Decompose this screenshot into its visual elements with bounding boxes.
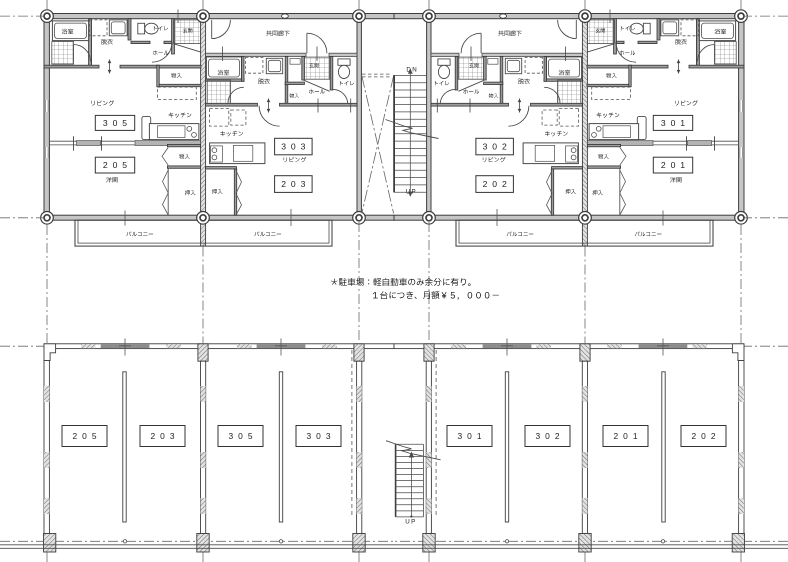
wire dressing east wall U2 bbox=[285, 56, 288, 106]
wire wall dressing/toilet U1 bbox=[128, 19, 131, 40]
bath door arc U1 bbox=[74, 45, 91, 62]
stair upper center line bbox=[409, 70, 411, 196]
toilet door arc U2 bbox=[333, 89, 348, 104]
wire room divider solid U1b bbox=[135, 141, 201, 146]
wire centerline x203 bbox=[202, 0, 204, 13]
label hooru bbox=[153, 51, 169, 56]
genkan step edge U2 bbox=[303, 80, 330, 92]
label yokushitsu bbox=[218, 70, 229, 75]
room number box 305 bbox=[95, 115, 134, 130]
label datsui bbox=[518, 78, 530, 83]
node parking centerline tick x125 bbox=[124, 339, 126, 356]
label ribingu bbox=[91, 100, 114, 105]
wire closet2 mid U1 bbox=[167, 166, 200, 168]
node door tick corridor b bbox=[316, 47, 318, 62]
kitchen sink U2 bbox=[233, 145, 252, 161]
parking stall box bbox=[140, 426, 185, 447]
stair shaft cross X bbox=[362, 76, 394, 214]
wire parking bottom line a bbox=[0, 544, 394, 546]
node divider tick b bbox=[101, 136, 103, 150]
bathtub U1 bbox=[52, 21, 88, 41]
node parking footing x359 bbox=[353, 534, 365, 553]
stair upper arrow top bbox=[408, 69, 413, 74]
bath tile floor U1 bbox=[52, 42, 74, 65]
node closet chevron U1 b bbox=[163, 170, 169, 215]
bath tile floor U2 bbox=[207, 80, 230, 103]
wire hall/genkan wall U1 bbox=[172, 19, 175, 54]
stair upper treads bbox=[394, 74, 427, 76]
node parking corner col bbox=[44, 344, 56, 361]
node door tick U2 hall b bbox=[350, 99, 352, 113]
node wall tick x125 bbox=[124, 211, 126, 226]
node datum circle x281 bbox=[279, 540, 282, 543]
parking stall box bbox=[62, 426, 107, 447]
wire wall hatch seg bbox=[44, 498, 49, 514]
label datsui bbox=[675, 39, 687, 44]
wire closet2 left U1 bbox=[167, 168, 169, 215]
label ribingu bbox=[675, 100, 698, 105]
node parking footing x47 bbox=[44, 534, 56, 553]
wire centerline bottom bbox=[0, 540, 394, 542]
genkan tile U2 bbox=[304, 57, 329, 79]
node oshiire chevron U2 bbox=[236, 171, 242, 216]
wire left outer wall bbox=[44, 14, 49, 221]
wire corridor south wall A bbox=[206, 53, 306, 56]
wire oshiire top U2 bbox=[206, 167, 237, 169]
wire closet top U1 bbox=[157, 65, 201, 68]
wire centerline x47 bbox=[46, 225, 48, 343]
wire centerline x359 bbox=[358, 0, 360, 13]
wire wall hatch seg bbox=[44, 386, 49, 402]
wire toilet south wall U1 b bbox=[164, 41, 174, 43]
wire stairwell west wall bbox=[357, 16, 361, 220]
svg-text:203: 203 bbox=[151, 431, 180, 441]
label youma bbox=[106, 177, 117, 182]
label parking note line2 bbox=[373, 291, 499, 299]
label toire bbox=[621, 26, 635, 30]
wire toilet south wall U1 bbox=[131, 41, 150, 43]
wire centerline x47 bbox=[46, 553, 48, 562]
wire parking wall hatch bbox=[322, 344, 337, 348]
wire service south wall U1 a bbox=[44, 65, 99, 68]
label oshiire bbox=[212, 189, 223, 194]
label monoire bbox=[489, 93, 499, 98]
label genkan bbox=[309, 63, 318, 68]
svg-text:202: 202 bbox=[483, 179, 512, 189]
parking stall box bbox=[218, 426, 263, 447]
svg-text:UP: UP bbox=[406, 189, 417, 196]
wire room divider solid U1a bbox=[77, 141, 101, 146]
wire storage top wall U2 bbox=[285, 82, 304, 84]
label toire bbox=[435, 81, 449, 85]
node column marker (47,16.1) bbox=[41, 10, 54, 23]
stove U2 bbox=[212, 148, 217, 153]
dashed appliance U1 bbox=[89, 20, 107, 36]
label yokushitsu bbox=[559, 70, 570, 75]
bath door arc U2 bbox=[228, 87, 244, 103]
stair upper west stringer bbox=[393, 75, 395, 192]
node top wall tick x178 bbox=[177, 10, 179, 24]
entry door U2 bbox=[306, 33, 308, 53]
wire parking wall hatch bbox=[237, 344, 252, 348]
node column marker (47,217.8) bbox=[41, 212, 54, 225]
stair lower east edge bbox=[422, 444, 424, 517]
wire parking west wall bbox=[44, 361, 49, 534]
label monoire bbox=[179, 154, 190, 159]
wire oshiire east U2 bbox=[234, 169, 236, 215]
svg-text:301: 301 bbox=[661, 118, 690, 128]
genkan tile U1 bbox=[174, 20, 201, 44]
svg-text:205: 205 bbox=[73, 431, 102, 441]
wire centerline margin y16.1 bbox=[0, 15, 44, 17]
wire parking stall divider x281 bbox=[279, 372, 282, 522]
wire col hatch seg bbox=[357, 452, 362, 468]
wire corridor south wall B bbox=[329, 53, 357, 56]
svg-text:303: 303 bbox=[307, 431, 336, 441]
dashed fridge space U1 bbox=[158, 87, 197, 100]
wire closet bottom U1 bbox=[157, 84, 201, 86]
svg-text:305: 305 bbox=[103, 118, 132, 128]
node door marker oval bbox=[282, 14, 289, 18]
hall door arc U2 bbox=[259, 106, 279, 126]
node door tick hall c bbox=[317, 99, 319, 113]
wire hall south wall U2 b bbox=[280, 103, 358, 106]
wire centerline x47 bbox=[46, 0, 48, 13]
wire col hatch seg bbox=[357, 498, 362, 514]
wire col hatch seg bbox=[201, 498, 206, 514]
label barukonii bbox=[254, 231, 281, 236]
wire under-tub wall U2 bbox=[206, 79, 244, 81]
stair lower break line bbox=[386, 441, 441, 460]
svg-text:303: 303 bbox=[281, 142, 310, 152]
stair upper arrow bottom bbox=[408, 192, 413, 197]
wire parking col shaft x203 bbox=[201, 361, 206, 533]
wire parking beam bay1 bbox=[101, 344, 149, 348]
label toire bbox=[340, 81, 354, 85]
genkan step edge U1 bbox=[174, 44, 200, 52]
svg-text:203: 203 bbox=[281, 179, 310, 189]
dashed appliance U2 bbox=[245, 58, 263, 74]
label rouka bbox=[498, 30, 521, 36]
svg-text:205: 205 bbox=[103, 160, 132, 170]
room number box 203 bbox=[275, 176, 313, 193]
node datum circle x125 bbox=[123, 540, 126, 543]
label youma bbox=[670, 177, 681, 182]
entry door U1 bbox=[211, 20, 213, 39]
toilet door arc U1 bbox=[152, 42, 172, 62]
svg-text:202: 202 bbox=[692, 431, 721, 441]
dashed shelf U2 bbox=[231, 110, 246, 125]
node closet chevron U1 a bbox=[162, 148, 168, 166]
stair lower west stringer bbox=[395, 444, 397, 517]
label oshiire bbox=[565, 189, 576, 194]
wire bath east wall U2 bbox=[242, 56, 244, 81]
label monoire bbox=[606, 73, 617, 78]
label kitchin bbox=[169, 113, 192, 118]
label genkan bbox=[596, 28, 605, 33]
node parking col cap x359 bbox=[354, 344, 364, 361]
label toire bbox=[154, 26, 168, 30]
node door tick corridor bbox=[221, 47, 223, 62]
label yokushitsu bbox=[62, 29, 73, 34]
wire bottom outer wall bbox=[44, 215, 394, 220]
wire wall hatch seg bbox=[44, 452, 49, 468]
wire col hatch seg bbox=[201, 386, 206, 402]
label oshiire bbox=[592, 190, 603, 195]
wire closet2 top U1 bbox=[167, 144, 200, 146]
kitchen counter U2 bbox=[210, 143, 265, 164]
svg-text:201: 201 bbox=[661, 160, 690, 170]
washer U2 bbox=[266, 58, 282, 73]
wire parking wall hatch bbox=[166, 344, 181, 348]
wire service south wall U1 b bbox=[120, 65, 158, 68]
wire room divider rails U1 bbox=[50, 140, 201, 142]
wire closet left U1 bbox=[157, 65, 159, 87]
room number box 303 bbox=[275, 138, 313, 155]
node column marker (203,16.1) bbox=[197, 10, 210, 23]
wire top outer wall bbox=[44, 14, 394, 19]
wire parking beam bay2 bbox=[257, 344, 305, 348]
node divider tick a bbox=[73, 136, 75, 150]
washer U1 bbox=[109, 20, 127, 36]
wire parking col shaft x359 bbox=[357, 361, 362, 533]
stair lower treads bbox=[396, 443, 424, 445]
parking stall box bbox=[296, 426, 341, 447]
wire centerline margin y346.2 bbox=[0, 345, 44, 347]
stair lower center arrow bbox=[410, 456, 412, 517]
wire parking bottom line b bbox=[0, 547, 394, 549]
wire toilet west wall U2 bbox=[330, 56, 333, 90]
label datsui bbox=[101, 39, 113, 44]
label barukonii bbox=[126, 231, 153, 236]
balcony outline bbox=[75, 220, 332, 246]
svg-text:UP: UP bbox=[405, 518, 416, 525]
node wall tick x291 bbox=[290, 209, 292, 226]
wire centerline x203 bbox=[202, 553, 204, 562]
label datsui bbox=[258, 78, 270, 83]
svg-text:301: 301 bbox=[458, 431, 487, 441]
svg-text:DN: DN bbox=[406, 67, 418, 74]
label monoire bbox=[171, 73, 182, 78]
label kitchin bbox=[545, 131, 568, 136]
label barukonii bbox=[507, 231, 534, 236]
label oshiire bbox=[185, 190, 196, 195]
toilet U1 bbox=[138, 23, 145, 34]
node parking centerline tick x281 bbox=[280, 339, 282, 356]
label yokushitsu bbox=[715, 29, 726, 34]
fridge U1 bbox=[142, 116, 151, 139]
node column marker (359,16.1) bbox=[353, 10, 366, 23]
wire centerline x359 bbox=[358, 222, 360, 343]
stove U1 bbox=[187, 126, 192, 131]
node column marker (359,217.8) bbox=[353, 212, 366, 225]
wire genkan west wall U2 bbox=[302, 56, 305, 80]
label kitchin bbox=[220, 131, 243, 136]
wire parking top wall bbox=[44, 344, 394, 349]
node window break left wall a bbox=[45, 100, 49, 112]
wire party wall x203 bbox=[201, 16, 206, 246]
wire centerline x203 bbox=[202, 247, 204, 344]
wire wall bath/dressing U1 bbox=[89, 19, 92, 66]
svg-text:302: 302 bbox=[483, 142, 512, 152]
label kitchin bbox=[597, 113, 620, 118]
label parking note line1 bbox=[331, 278, 470, 286]
svg-text:305: 305 bbox=[229, 431, 258, 441]
node window break left wall b bbox=[45, 147, 49, 158]
wire parking wall hatch bbox=[81, 344, 96, 348]
svg-text:201: 201 bbox=[614, 431, 643, 441]
svg-text:302: 302 bbox=[536, 431, 565, 441]
label genkan bbox=[183, 28, 192, 33]
node door tick U1 service bbox=[109, 60, 111, 74]
stove box U2 bbox=[211, 146, 223, 162]
wire parking stall divider x124 bbox=[123, 372, 126, 522]
wire col hatch seg bbox=[357, 386, 362, 402]
label hooru bbox=[619, 51, 635, 56]
stair shaft dashed top bbox=[362, 73, 391, 75]
kitchen counter U1 bbox=[149, 124, 199, 140]
node column marker (203,217.8) bbox=[197, 212, 210, 225]
wire centerline margin y217.8 bbox=[0, 217, 44, 219]
room number box 205 bbox=[95, 157, 134, 173]
label rouka bbox=[266, 30, 289, 36]
wire centerline x359 bbox=[358, 553, 360, 562]
label genkan bbox=[469, 63, 478, 68]
kitchen sink U1 bbox=[158, 126, 185, 138]
node parking footing x203 bbox=[197, 534, 209, 553]
label ribingu bbox=[284, 157, 307, 162]
dashed fridge space U2 bbox=[210, 108, 229, 126]
wire parking dashed overhang bbox=[351, 350, 353, 517]
shoe cabinet U2 bbox=[290, 59, 300, 65]
label hooru bbox=[309, 89, 325, 94]
bathtub U2 bbox=[206, 57, 241, 79]
wire col hatch seg bbox=[201, 452, 206, 468]
label ribingu bbox=[483, 157, 506, 162]
wire hall south wall U2 a bbox=[206, 103, 258, 106]
node parking col cap x203 bbox=[198, 344, 208, 361]
stair upper break line bbox=[386, 120, 439, 139]
label hooru bbox=[463, 89, 479, 94]
label monoire bbox=[598, 154, 609, 159]
label monoire bbox=[290, 93, 300, 98]
node door tick U2 hall bbox=[268, 99, 270, 113]
toilet U2 bbox=[338, 59, 350, 65]
label barukonii bbox=[635, 231, 662, 236]
